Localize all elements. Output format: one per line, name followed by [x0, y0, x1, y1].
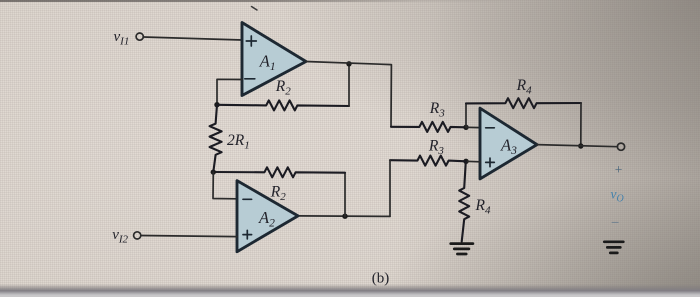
wire node to A3 inverting input [466, 126, 480, 128]
wire N2 to A2 inverting input [213, 172, 237, 199]
wire junction up to R2 bottom [344, 173, 346, 217]
wire R3 bottom down to A2 output row [389, 160, 391, 216]
wire vI2 to A2 noninverting input [141, 236, 237, 237]
wire A3 output to terminal [537, 145, 617, 147]
junction on A1 output [346, 61, 351, 66]
ground at output [604, 242, 623, 253]
wire node up to R4 feedback [465, 103, 467, 127]
svg-text:–: – [611, 214, 619, 229]
svg-text:vI1: vI1 [114, 29, 130, 48]
resistor R3 (bottom) [390, 156, 466, 166]
terminal vI2 [134, 232, 141, 239]
wire R4 down to output [580, 103, 582, 146]
svg-text:+: + [615, 162, 623, 177]
node N1 [214, 102, 219, 107]
node A3 inverting input [463, 125, 468, 130]
svg-text:(b): (b) [372, 271, 390, 287]
svg-text:R4: R4 [475, 197, 491, 217]
svg-text:R4: R4 [516, 77, 532, 97]
resistor R2 (bottom feedback) [213, 167, 345, 177]
ground below R4 [451, 244, 473, 254]
terminal vO [617, 143, 624, 150]
svg-text:R2: R2 [275, 78, 291, 98]
junction on A3 output [578, 143, 583, 148]
wire A1 inverting input to node N1 [217, 79, 242, 104]
node A3 noninverting input [463, 159, 468, 164]
wire vI1 to A1 noninverting input [144, 37, 242, 40]
svg-text:R3: R3 [429, 100, 445, 120]
terminal vI1 [136, 33, 143, 40]
node N2 [211, 169, 216, 174]
resistor R2 (top feedback) [217, 100, 349, 110]
op-amp A2 [237, 181, 298, 252]
resistor R4 (feedback) [466, 98, 581, 108]
svg-text:R3: R3 [428, 138, 444, 158]
svg-text:vI2: vI2 [112, 227, 128, 246]
resistor R3 (top) [391, 122, 466, 132]
resistor R4 (to ground) [459, 161, 469, 241]
op-amp A1 [242, 23, 306, 96]
cursor mark above A1 [252, 7, 258, 11]
op-amp A3 [480, 108, 537, 179]
svg-text:2R1: 2R1 [227, 132, 250, 152]
wire A2 output to R3 bottom [298, 215, 390, 218]
wire node to A3 noninverting input [466, 160, 480, 163]
wire A1 output to R3 top [306, 62, 391, 127]
junction on A2 output [342, 214, 347, 219]
resistor 2R1 [210, 105, 222, 172]
wire R2 up to A1 output [348, 64, 350, 107]
svg-text:vO: vO [611, 187, 624, 205]
